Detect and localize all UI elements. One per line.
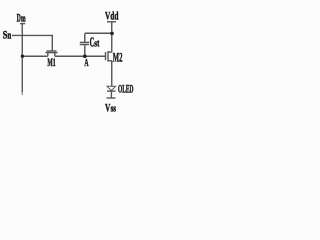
diode OLED: [107, 86, 116, 91]
Dm terminal bar: [20, 23, 25, 25]
transistor M1: [46, 51, 58, 56]
wire: Cst top plate to Vdd rail: [85, 32, 112, 34]
wire: node A, M1 drain to M2 gate: [55, 55, 105, 57]
svg-text:OLED: OLED: [118, 84, 134, 96]
wire: M2 source down to OLED anode: [111, 61, 113, 87]
svg-text:A: A: [84, 58, 88, 69]
capacitor Cst: [80, 33, 89, 56]
wire: OLED cathode lead to Vss: [110, 91, 112, 98]
svg-text:ss: ss: [111, 104, 116, 115]
svg-text:M1: M1: [47, 55, 55, 69]
svg-text:M2: M2: [113, 51, 123, 65]
junction: Dm / M1 source node: [21, 55, 24, 58]
wire: Vdd lead down to M2 drain: [111, 22, 113, 52]
junction: node A / Cst bottom plate: [83, 54, 87, 58]
svg-text:Vdd: Vdd: [105, 10, 119, 22]
transistor M2: [106, 51, 112, 62]
svg-text:m: m: [21, 14, 26, 25]
wire: Dm to M1 source: [22, 55, 48, 57]
Vdd terminal bar: [107, 21, 116, 23]
svg-text:n: n: [7, 31, 11, 42]
wire: scan line Sn horizontal, turning down to M1 gate: [12, 35, 52, 50]
junction: Vdd rail / Cst branch: [110, 32, 114, 36]
Vss terminal bar: [107, 97, 116, 99]
wire: data line Dm vertical: [21, 23, 23, 92]
wire: data line Dm faded tail: [21, 92, 23, 95]
svg-text:st: st: [94, 39, 100, 50]
